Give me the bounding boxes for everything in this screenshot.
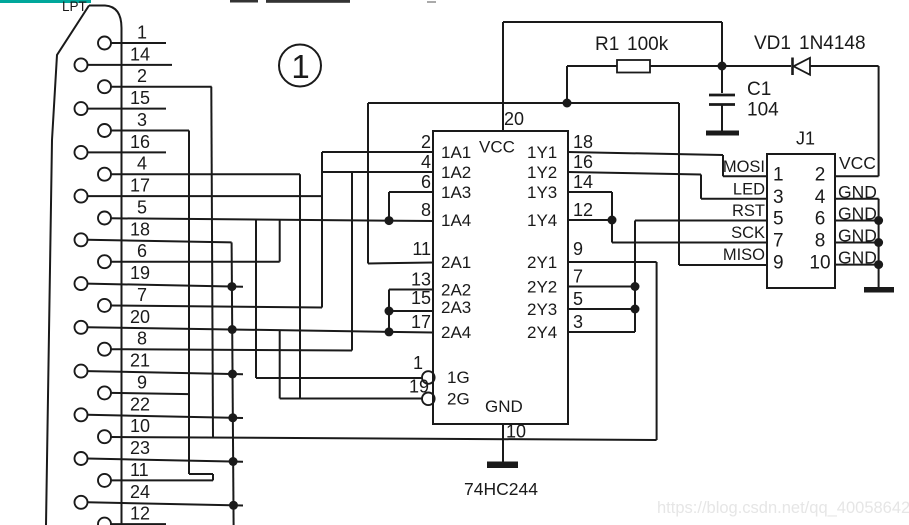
- capacitor C1 104: [721, 66, 723, 93]
- svg-text:2A3: 2A3: [441, 298, 471, 317]
- wire: J1 ground pins 4,6,8,10: [835, 198, 879, 200]
- wire: LPT pin7 lead: [111, 306, 322, 308]
- wire: LPT pin6 up to 1A4 row: [111, 261, 280, 263]
- IC pin 10 GND stem: [502, 424, 504, 462]
- wire: 2Y1 output down to pin10 row: [568, 261, 657, 263]
- svg-text:16: 16: [573, 152, 593, 172]
- junction R1/MISO row: [563, 99, 572, 108]
- ground symbol C1: [706, 131, 739, 136]
- wire: 1A2 branch down to pin8: [351, 172, 353, 351]
- LPT pin 21: [75, 365, 88, 378]
- svg-text:2Y4: 2Y4: [527, 323, 557, 342]
- ground bus vertical: [232, 242, 234, 525]
- svg-text:6: 6: [137, 241, 147, 261]
- svg-text:13: 13: [411, 270, 431, 290]
- wire: diode to J1 VCC pin2: [878, 66, 880, 176]
- connector J1 body: [767, 154, 835, 288]
- svg-text:1Y3: 1Y3: [527, 183, 557, 202]
- wire: LPT pin9 lead: [111, 393, 189, 394]
- svg-text:11: 11: [130, 460, 149, 480]
- LPT pin 19: [75, 277, 88, 290]
- wire: LPT pin 24 ground lead: [87, 502, 243, 505]
- LPT pin 14: [75, 58, 88, 71]
- LPT pin 6: [98, 255, 111, 268]
- junction VCC node at R1 right: [718, 62, 727, 71]
- junction ground bus pin 19: [227, 282, 236, 291]
- LPT pin 17: [75, 190, 88, 203]
- svg-text:GND: GND: [485, 397, 523, 416]
- svg-text:14: 14: [130, 44, 150, 64]
- junction 2A2/2A3: [385, 307, 394, 316]
- svg-text:10: 10: [130, 416, 150, 436]
- svg-text:VCC: VCC: [839, 153, 876, 173]
- svg-text:2G: 2G: [447, 390, 470, 409]
- wire: 2Y4 output stub: [568, 331, 635, 333]
- wire: branch to 1G enable (vertical x=256): [255, 220, 257, 379]
- wire: 1Y3 output tie: [568, 191, 612, 193]
- LPT pin 11: [98, 474, 111, 487]
- wire: 1Y4 output stub: [568, 219, 612, 221]
- svg-text:8: 8: [421, 200, 431, 220]
- svg-text:2Y2: 2Y2: [527, 278, 557, 297]
- junction J1 gnd pin8: [874, 238, 883, 247]
- svg-text:6: 6: [815, 209, 826, 230]
- svg-text:2A4: 2A4: [441, 323, 471, 342]
- svg-text:24: 24: [130, 482, 150, 502]
- wire: LPT pin3 to pin11 (staircase): [111, 130, 189, 132]
- wire: R1 left lead down to MISO row: [566, 66, 568, 103]
- junction RST/2Y2: [631, 282, 640, 291]
- LPT pin 3: [98, 124, 111, 137]
- svg-text:9: 9: [137, 372, 147, 392]
- svg-text:4: 4: [137, 154, 147, 174]
- svg-text:9: 9: [573, 239, 583, 259]
- svg-text:1: 1: [137, 23, 147, 43]
- scan artifact: teal highlight bar top-left: [0, 0, 91, 3]
- LPT pin 5: [98, 212, 111, 225]
- svg-text:15: 15: [130, 88, 150, 108]
- wire: LPT pin5 / 1A4 input row: [111, 218, 433, 221]
- svg-text:17: 17: [411, 312, 431, 332]
- svg-text:1A3: 1A3: [441, 183, 471, 202]
- svg-text:23: 23: [130, 438, 150, 458]
- wire: 1A3 input tie to 1A4: [389, 191, 433, 193]
- svg-text:19: 19: [409, 377, 429, 397]
- svg-text:18: 18: [130, 219, 150, 239]
- wire: 2A4 branch down to 2G enable: [279, 330, 281, 398]
- svg-text:1Y1: 1Y1: [527, 143, 557, 162]
- svg-text:1A4: 1A4: [441, 211, 471, 230]
- svg-text:5: 5: [573, 289, 583, 309]
- svg-text:RST: RST: [732, 202, 765, 220]
- LPT pin 9: [98, 386, 111, 399]
- svg-text:1: 1: [413, 353, 423, 373]
- svg-text:C1: C1: [747, 79, 771, 100]
- svg-text:18: 18: [573, 132, 593, 152]
- wire: LPT pin15 stub: [87, 108, 166, 110]
- svg-text:1: 1: [773, 164, 784, 185]
- wire: RST row to J1 pin5: [635, 220, 767, 222]
- LPT pin 7: [98, 299, 111, 312]
- wire: SCK row to J1 pin7: [612, 242, 767, 244]
- ground symbol IC: [487, 462, 518, 469]
- svg-text:100k: 100k: [627, 34, 669, 55]
- wire: LPT pin14 stub: [87, 64, 172, 66]
- svg-text:3: 3: [137, 110, 147, 130]
- LPT pin 22: [75, 408, 88, 421]
- svg-text:2A2: 2A2: [441, 281, 471, 300]
- svg-text:17: 17: [130, 176, 150, 196]
- wire: down to 2A1 input: [367, 103, 369, 264]
- junction ground bus pin 21: [228, 370, 237, 379]
- svg-text:7: 7: [137, 285, 147, 305]
- svg-text:LED: LED: [733, 180, 765, 198]
- svg-text:3: 3: [573, 312, 583, 332]
- wire: 1G enable row: [256, 377, 422, 379]
- resistor R1 100k: [567, 65, 617, 67]
- svg-text:J1: J1: [796, 129, 815, 149]
- wire: MISO row to J1 pin9: [679, 264, 767, 266]
- svg-text:10: 10: [809, 253, 830, 274]
- LPT pin 23: [75, 452, 88, 465]
- connector LPT (DB25) shell: [89, 6, 122, 525]
- wire: LPT pin17 to 1A1 (staircase): [87, 195, 322, 197]
- LPT pin 18: [75, 233, 88, 246]
- wire: MISO pull-up horizontal net: [368, 102, 679, 104]
- wire: LPT pin10 / 2Y1 long row: [111, 437, 657, 440]
- svg-text:6: 6: [421, 172, 431, 192]
- svg-text:2Y3: 2Y3: [527, 300, 557, 319]
- svg-text:8: 8: [815, 231, 826, 252]
- junction J1 gnd pin10: [874, 260, 883, 269]
- svg-text:5: 5: [137, 198, 147, 218]
- wire: 1A2 input row: [322, 171, 433, 173]
- LPT pin 15: [75, 102, 88, 115]
- diode VD1 1N4148: [722, 65, 791, 67]
- IC 2G enable bubble: [422, 393, 435, 406]
- svg-text:10: 10: [506, 422, 526, 442]
- wire: 2A1 input row: [368, 263, 433, 264]
- LPT pin 2: [98, 80, 111, 93]
- svg-text:1: 1: [291, 48, 309, 85]
- svg-text:74HC244: 74HC244: [464, 479, 538, 499]
- svg-text:2A1: 2A1: [441, 253, 471, 272]
- svg-text:2: 2: [421, 132, 431, 152]
- wire: LPT pin4 down to pin9 row: [111, 173, 300, 175]
- svg-text:11: 11: [412, 239, 431, 259]
- LPT pin 12: [98, 518, 111, 525]
- LPT pin 8: [98, 343, 111, 356]
- svg-text:LPT: LPT: [62, 0, 87, 14]
- wire: 2A2 input tie: [389, 289, 433, 291]
- wire: LPT pin2 to pin10 net (vertical at x=211.7): [111, 86, 212, 88]
- wire: 2A3 input stub: [389, 310, 433, 312]
- svg-text:5: 5: [773, 209, 784, 230]
- LPT pin 24: [75, 496, 88, 509]
- svg-text:20: 20: [130, 307, 150, 327]
- svg-text:MISO: MISO: [723, 246, 765, 264]
- svg-text:1A1: 1A1: [441, 143, 471, 162]
- wire: LPT pin 21 ground lead: [87, 371, 243, 374]
- svg-text:7: 7: [773, 231, 784, 252]
- LPT pin 10: [98, 430, 111, 443]
- ground symbol J1: [864, 287, 894, 293]
- LPT pin 1: [98, 37, 111, 50]
- svg-text:1A2: 1A2: [441, 163, 471, 182]
- svg-text:2Y1: 2Y1: [527, 253, 557, 272]
- svg-text:1G: 1G: [447, 368, 470, 387]
- junction ground bus pin 22: [228, 413, 237, 422]
- IC 1G enable bubble: [422, 371, 435, 384]
- wire: LPT pin16 stub: [87, 151, 166, 153]
- wire: LPT pin 23 ground lead: [87, 459, 243, 462]
- svg-text:1Y4: 1Y4: [527, 211, 557, 230]
- svg-text:1Y2: 1Y2: [527, 163, 557, 182]
- LPT pin 4: [98, 168, 111, 181]
- svg-text:4: 4: [421, 152, 431, 172]
- svg-text:8: 8: [137, 329, 147, 349]
- wire: 2Y3 output stub: [568, 308, 635, 310]
- junction 1Y3/1Y4 SCK net: [608, 216, 617, 225]
- svg-text:1N4148: 1N4148: [799, 33, 866, 54]
- wire: 2G enable row: [280, 398, 422, 400]
- wire: LPT pin 19 ground lead: [87, 284, 243, 287]
- wire: 1Y2 output to LED: [568, 172, 701, 175]
- op IC U1 74HC244 body: [433, 131, 568, 424]
- svg-text:4: 4: [815, 187, 826, 208]
- junction ground bus pin 23: [229, 457, 238, 466]
- wire: LPT pin8 lead to 1G net: [111, 349, 352, 350]
- svg-text:12: 12: [573, 200, 593, 220]
- svg-text:9: 9: [773, 253, 784, 274]
- svg-text:SCK: SCK: [731, 224, 765, 242]
- svg-text:20: 20: [504, 109, 524, 129]
- svg-text:22: 22: [130, 394, 150, 414]
- junction ground bus pin 24: [229, 501, 238, 510]
- LPT pin 20: [75, 321, 88, 334]
- svg-text:14: 14: [573, 172, 593, 192]
- IC pin 20 VCC stem: [502, 22, 504, 131]
- wire: LPT pin1 stub: [111, 42, 166, 44]
- junction ground bus pin 20: [228, 325, 237, 334]
- junction RST/2Y3: [631, 305, 640, 314]
- wire: VCC top rail from pin20: [503, 21, 722, 23]
- svg-text:VD1: VD1: [754, 33, 791, 54]
- svg-text:2: 2: [815, 164, 826, 185]
- wire: RST vertical tie 2Y2/2Y3/2Y4: [634, 221, 636, 333]
- svg-text:12: 12: [130, 504, 150, 524]
- wire: 1Y1 output to MOSI: [568, 152, 723, 155]
- svg-text:VCC: VCC: [479, 138, 515, 157]
- wire: LPT pin18 to ground bus: [87, 240, 231, 243]
- figure number circled 1: [279, 45, 321, 87]
- svg-text:19: 19: [130, 263, 150, 283]
- wire: LPT pin20 / 2A4 input row: [87, 327, 433, 332]
- svg-text:15: 15: [411, 288, 431, 308]
- LPT pin 16: [75, 146, 88, 159]
- wire: 2Y2 output stub: [568, 286, 635, 288]
- svg-text:https://blog.csdn.net/qq_40058: https://blog.csdn.net/qq_40058642: [657, 499, 909, 517]
- junction 2A2/2A4: [385, 327, 394, 336]
- svg-text:16: 16: [130, 132, 150, 152]
- svg-text:R1: R1: [595, 34, 619, 55]
- svg-text:104: 104: [747, 100, 779, 121]
- svg-text:21: 21: [130, 351, 150, 371]
- wire: 1A1 input row: [322, 151, 433, 153]
- wire: MISO vertical to J1: [678, 103, 680, 265]
- junction J1 gnd pin6: [874, 216, 883, 225]
- svg-text:7: 7: [573, 267, 583, 287]
- svg-text:2: 2: [137, 66, 147, 86]
- junction 1A3/1A4: [385, 216, 394, 225]
- svg-text:3: 3: [773, 187, 784, 208]
- svg-text:MOSI: MOSI: [723, 158, 765, 176]
- wire: LPT pin12 stub: [111, 523, 166, 525]
- wire: LPT pin11 lead: [111, 479, 213, 481]
- wire: LPT pin 22 ground lead: [87, 415, 243, 418]
- scan artifact: cropped text remnants top edge: [230, 0, 258, 3]
